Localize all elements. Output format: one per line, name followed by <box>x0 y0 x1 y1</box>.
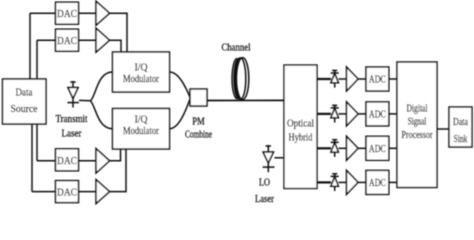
box: Data Source <box>3 79 47 124</box>
photodiode D4 <box>334 174 336 192</box>
wire: amp to ADC2 <box>358 113 366 115</box>
wire: transmit laser output <box>79 99 91 101</box>
amplifier A2 <box>96 28 110 52</box>
svg-text:Optical: Optical <box>287 119 314 130</box>
detection row 4 <box>317 170 397 194</box>
wire: data source to DAC3 <box>36 124 38 161</box>
wire: splitter lower branch <box>91 101 113 129</box>
box DAC3 <box>56 149 79 171</box>
wire: photodiode 2 to amp <box>339 113 347 115</box>
channel fiber coil <box>232 58 249 100</box>
wire: hybrid output 3 <box>317 147 331 149</box>
wire: ADC2 to DSP <box>389 113 397 115</box>
wire: photodiode 3 to amp <box>339 147 347 149</box>
wire: ADC4 to DSP <box>389 181 397 183</box>
box: I/Q Modulator 2 <box>113 109 170 150</box>
svg-text:DAC: DAC <box>57 187 77 199</box>
wire: DAC4 to amp4 <box>79 191 97 193</box>
box: Data Sink <box>449 107 472 147</box>
wire: amp4 to I/Q modulator 2 bottom <box>110 149 127 192</box>
box DAC1 <box>56 2 79 24</box>
svg-text:I/Q: I/Q <box>135 113 148 125</box>
detection row 2 <box>317 102 397 126</box>
wire: DSP to data sink <box>437 128 449 130</box>
svg-text:Modulator: Modulator <box>123 73 159 85</box>
wire: amp to ADC4 <box>358 181 366 183</box>
box ADC2 <box>366 102 389 126</box>
wire: ADC1 to DSP <box>389 78 397 80</box>
wire: data source to DAC4 <box>31 124 33 192</box>
box DAC2 <box>56 29 79 51</box>
wire: data source to DAC1 <box>29 13 31 79</box>
svg-text:LO: LO <box>259 178 270 189</box>
wire: amp1 to I/Q modulator 1 top <box>110 13 128 52</box>
svg-text:Laser: Laser <box>255 194 274 205</box>
photodiode D3 <box>334 139 336 157</box>
svg-text:Signal: Signal <box>408 117 427 128</box>
LO laser diode symbol <box>263 145 275 172</box>
svg-text:Data: Data <box>16 87 33 99</box>
wire: DAC3 to amp3 <box>79 160 97 162</box>
wire: splitter upper branch <box>91 72 113 101</box>
svg-text:ADC: ADC <box>369 178 386 189</box>
svg-text:Processor: Processor <box>402 130 433 141</box>
wire: DAC2 to amp2 <box>79 39 97 41</box>
svg-text:DAC: DAC <box>57 35 77 47</box>
svg-text:Source: Source <box>11 103 38 115</box>
amplifier A3 <box>96 149 110 173</box>
svg-text:PM: PM <box>192 117 205 128</box>
wire: DAC1 to amp1 <box>79 12 97 14</box>
box: PM Combine <box>190 89 207 106</box>
box ADC1 <box>366 67 389 91</box>
wire: data source to DAC2 <box>36 40 38 79</box>
svg-text:DAC: DAC <box>57 8 77 20</box>
box: I/Q Modulator 1 <box>113 52 170 92</box>
wire: amp2 to I/Q modulator 1 top <box>110 40 122 52</box>
amplifier A8 <box>347 170 359 194</box>
svg-text:DAC: DAC <box>57 155 77 167</box>
wire: photodiode 4 to amp <box>339 181 347 183</box>
svg-text:Hybrid: Hybrid <box>289 133 313 144</box>
photodiode D1 <box>334 70 336 88</box>
svg-text:Channel: Channel <box>222 43 251 54</box>
wire: combiner upper branch <box>170 72 191 97</box>
box ADC3 <box>366 136 389 160</box>
box ADC4 <box>366 170 389 194</box>
detection row 3 <box>317 136 397 160</box>
svg-text:Laser: Laser <box>62 128 82 140</box>
box: Digital Signal Processor <box>397 62 437 188</box>
box DAC4 <box>56 181 79 203</box>
box: Optical Hybrid <box>284 65 317 189</box>
wire: amp to ADC1 <box>358 78 366 80</box>
detection row 1 <box>317 67 397 91</box>
wire: LO laser to optical hybrid <box>275 157 285 159</box>
svg-text:Modulator: Modulator <box>123 125 159 137</box>
amplifier A7 <box>347 136 359 160</box>
svg-text:Sink: Sink <box>454 133 468 145</box>
wire: photodiode 1 to amp <box>339 78 347 80</box>
amplifier A6 <box>347 102 359 126</box>
wire: combiner lower branch <box>170 99 191 129</box>
photodiode D2 <box>334 105 336 123</box>
svg-text:Digital: Digital <box>407 104 428 115</box>
svg-text:ADC: ADC <box>369 144 386 155</box>
amplifier A4 <box>96 180 110 204</box>
wire: hybrid output 4 <box>317 181 331 183</box>
amplifier A1 <box>96 1 110 25</box>
svg-text:Data: Data <box>453 116 468 128</box>
transmit laser diode symbol <box>67 81 79 108</box>
wire: amp to ADC3 <box>358 147 366 149</box>
svg-text:I/Q: I/Q <box>135 62 148 74</box>
amplifier A5 <box>347 67 359 91</box>
wire: hybrid output 2 <box>317 113 331 115</box>
wire: channel line <box>207 99 284 101</box>
wire: hybrid output 1 <box>317 78 331 80</box>
svg-text:Combine: Combine <box>185 130 212 141</box>
svg-text:ADC: ADC <box>369 109 386 120</box>
svg-text:Transmit: Transmit <box>56 113 88 125</box>
svg-text:ADC: ADC <box>369 75 386 86</box>
wire: ADC3 to DSP <box>389 147 397 149</box>
wire: amp3 to I/Q modulator 2 bottom <box>110 149 121 161</box>
